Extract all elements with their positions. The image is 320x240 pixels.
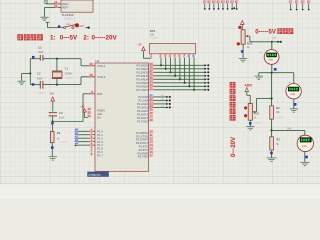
svg-text:P1.5: P1.5 <box>97 147 103 151</box>
svg-text:31: 31 <box>88 114 91 118</box>
wire C1 right to crystal node <box>43 58 81 60</box>
svg-text:RST: RST <box>97 92 103 96</box>
svg-text:ALE: ALE <box>97 112 102 116</box>
svg-text:Volts: Volts <box>302 145 308 148</box>
power +5V arrow RV2 <box>241 21 245 30</box>
svg-text:37: 37 <box>150 69 153 73</box>
svg-text:P2.6/A14: P2.6/A14 <box>137 116 149 120</box>
R1 bottom stub <box>51 143 53 157</box>
svg-text:P2.7/A15: P2.7/A15 <box>137 119 149 123</box>
value RV2 <box>247 46 250 49</box>
crystal Y1 plates <box>52 71 62 79</box>
wire EA <box>85 117 88 119</box>
svg-text:P2.3/A11: P2.3/A11 <box>137 105 148 109</box>
label R2 <box>276 106 280 110</box>
svg-text:36: 36 <box>150 73 153 77</box>
wire C1 left <box>30 58 40 60</box>
value RP1 <box>150 34 155 37</box>
TEXT RV1 <box>254 122 263 125</box>
svg-text:35: 35 <box>150 76 153 80</box>
svg-text:P0.3/AD3: P0.3/AD3 <box>136 74 148 78</box>
resistor R3 body <box>270 137 274 150</box>
wire to ground <box>22 74 31 81</box>
value R2 <box>276 111 281 114</box>
value C3 <box>59 117 65 120</box>
wire R2 to R3 <box>271 120 273 137</box>
wire switch to node <box>86 27 89 29</box>
svg-text:TLC1543: TLC1543 <box>62 13 74 17</box>
svg-text:28: 28 <box>150 118 153 122</box>
svg-text:<TEXT>: <TEXT> <box>65 77 75 80</box>
svg-text:P3.5/T1: P3.5/T1 <box>139 148 149 152</box>
pin number 14 <box>54 0 58 4</box>
svg-text:39: 39 <box>150 62 153 66</box>
ground under RV2 <box>239 59 247 62</box>
svg-text:32: 32 <box>150 87 153 91</box>
wire node to VM3 <box>272 129 305 131</box>
svg-text:REF+: REF+ <box>62 2 69 6</box>
svg-text:16: 16 <box>150 150 153 154</box>
svg-text:29: 29 <box>88 107 91 111</box>
svg-text:0---5V: 0---5V <box>60 34 78 41</box>
ground under R1 <box>49 157 57 160</box>
svg-text:P1.6: P1.6 <box>97 150 103 154</box>
svg-text:PSEN: PSEN <box>97 109 104 113</box>
crystal bottom stub <box>56 79 58 85</box>
pin REF+ stub <box>55 3 61 5</box>
pin name XTAL1 <box>97 64 106 68</box>
marker blue R3 <box>270 152 273 155</box>
wire RV1 wiper up <box>257 98 272 112</box>
pin number 19 <box>89 62 93 66</box>
label RP1 <box>150 29 156 33</box>
power +20V arrow <box>245 88 249 96</box>
svg-text:18: 18 <box>89 73 92 77</box>
svg-text:15: 15 <box>150 147 153 151</box>
svg-text:C3: C3 <box>59 111 63 115</box>
label R1 <box>57 131 61 135</box>
wire stub above switch <box>46 22 50 27</box>
svg-text:30pF: 30pF <box>38 51 44 54</box>
wire arrow to RV1 <box>247 95 250 103</box>
svg-text:REF-: REF- <box>62 6 68 10</box>
value R1 <box>57 137 60 140</box>
TEXT under R1 <box>60 141 70 144</box>
label +5V at switch <box>79 25 84 28</box>
svg-text:P2.2/A10: P2.2/A10 <box>137 102 149 106</box>
P3 pin numbers <box>149 130 153 158</box>
svg-text:0-----20V: 0-----20V <box>92 34 118 41</box>
svg-text:R1: R1 <box>57 131 61 135</box>
label TEXT placeholder <box>62 18 72 21</box>
svg-text:10: 10 <box>150 130 153 134</box>
ground left <box>17 81 25 84</box>
svg-text:1:: 1: <box>50 34 56 41</box>
R1 top stub <box>51 122 53 132</box>
TEXT R2 <box>276 116 285 119</box>
svg-text:P1.7: P1.7 <box>97 154 103 158</box>
power +5V arrow EA <box>83 109 87 118</box>
svg-text:P1.3: P1.3 <box>97 140 103 144</box>
wire meter1 bottom bus <box>259 72 294 74</box>
red marker RV1 bottom <box>244 114 247 117</box>
wire to switch <box>48 27 64 29</box>
wire XTAL1 <box>81 59 88 66</box>
svg-text:P0.2/AD2: P0.2/AD2 <box>136 70 148 74</box>
svg-text:P0.4/AD4: P0.4/AD4 <box>136 77 148 81</box>
switch SW1 contact 1 <box>64 26 66 28</box>
svg-text:P1.1: P1.1 <box>97 133 103 137</box>
P1 net labels blue <box>74 128 78 146</box>
VM1 top stub <box>271 42 273 50</box>
pin name REF+ <box>62 2 69 6</box>
P1 pin numbers <box>90 128 93 156</box>
svg-text:P0.1/AD1: P0.1/AD1 <box>136 67 148 71</box>
label C1 <box>38 45 42 49</box>
svg-text:0---20V: 0---20V <box>231 137 237 157</box>
svg-text:P0.7/AD7: P0.7/AD7 <box>136 88 148 92</box>
wire end dot <box>87 26 89 28</box>
svg-text:+20V: +20V <box>244 84 253 88</box>
P2 wires with arrows <box>149 95 171 109</box>
pin number 13 <box>54 4 58 8</box>
VM2 top stub <box>293 73 295 84</box>
label +5V RP1 <box>137 43 142 47</box>
red marker RV2 bottom <box>237 42 240 45</box>
label R3 <box>276 138 280 142</box>
pin name REF- <box>62 6 68 10</box>
switch SW1 contact 2 <box>72 26 74 28</box>
svg-text:P3.6/WR: P3.6/WR <box>137 151 148 155</box>
svg-text:<TEXT>: <TEXT> <box>65 18 74 21</box>
junction wiper wire <box>271 41 273 43</box>
svg-text:RV1: RV1 <box>254 112 260 116</box>
svg-text:30: 30 <box>88 111 91 115</box>
RP1 pins to P0 bus with junctions <box>160 54 195 91</box>
svg-text:a3: a3 <box>75 138 78 142</box>
svg-text:U1: U1 <box>95 59 99 63</box>
svg-text:<TEXT>: <TEXT> <box>150 37 160 40</box>
value 30pF C2 <box>37 78 43 81</box>
red marker RV1 top <box>244 106 247 109</box>
wire C2 left <box>30 84 40 86</box>
wire XTAL2 <box>81 77 88 85</box>
svg-text:P0.5/AD5: P0.5/AD5 <box>136 81 148 85</box>
switch state red dot <box>75 23 79 27</box>
label C3 <box>59 111 63 115</box>
svg-text:P3.0/RXD: P3.0/RXD <box>136 131 148 135</box>
svg-text:22: 22 <box>150 97 153 101</box>
svg-text:Volts: Volts <box>268 59 274 62</box>
svg-text:<TEXT>: <TEXT> <box>254 122 263 125</box>
P0 pin numbers <box>149 62 153 91</box>
pin number 18 <box>89 73 93 77</box>
svg-text:C2: C2 <box>37 72 41 76</box>
TEXT under Y1 <box>65 77 75 80</box>
net label on wiper wire <box>273 38 277 40</box>
pin number 9 <box>91 90 94 94</box>
junction ground tap <box>29 72 31 74</box>
svg-text:19: 19 <box>89 62 92 66</box>
junction bus <box>270 72 272 74</box>
svg-text:13: 13 <box>150 140 153 144</box>
marker blue R1 <box>51 146 54 149</box>
svg-text:P3.3/INT1: P3.3/INT1 <box>136 141 149 145</box>
capacitor C1 plates <box>40 55 43 61</box>
MCU U1 body <box>95 63 149 171</box>
ground for REF- <box>40 17 48 20</box>
svg-text:P3.2/INT0: P3.2/INT0 <box>136 138 149 142</box>
C3 bottom stub <box>52 116 54 122</box>
power +5V arrow RP1 <box>142 47 146 59</box>
svg-text:26: 26 <box>150 111 153 115</box>
cut-off display pins group B <box>289 0 311 10</box>
svg-text:23: 23 <box>150 101 153 105</box>
svg-text:P2.1/A9: P2.1/A9 <box>138 98 148 102</box>
power +5V arrow reset <box>51 97 55 112</box>
value R3 <box>276 143 279 146</box>
ground VM1 <box>255 76 263 79</box>
label C2 <box>37 72 41 76</box>
svg-text:25: 25 <box>150 108 153 112</box>
label RV1 <box>254 112 260 116</box>
svg-text:17: 17 <box>150 153 153 157</box>
svg-text:P2.0/A8: P2.0/A8 <box>138 95 148 99</box>
svg-text:AT89C51: AT89C51 <box>88 173 101 177</box>
left vertical bus wire <box>29 59 31 85</box>
voltmeter VM3 <box>297 135 313 151</box>
P1 wires with node dots <box>75 130 95 146</box>
net label grey <box>287 128 292 130</box>
svg-text:XTAL2: XTAL2 <box>97 75 106 79</box>
pin numbers 29 30 31 <box>87 107 91 118</box>
label +5V reset <box>50 92 55 96</box>
svg-text:P1.0: P1.0 <box>97 129 103 133</box>
vertical wire to R2 <box>271 73 273 106</box>
svg-text:+5V: +5V <box>137 43 142 47</box>
svg-text:C1: C1 <box>38 45 42 49</box>
marker blue reset <box>51 122 54 125</box>
junction at crystal top <box>56 58 58 60</box>
label SW-SPDT <box>65 18 74 21</box>
marker blue VM3 <box>305 156 308 159</box>
ground stem VM1 <box>258 73 260 76</box>
svg-text:P0.0/AD0: P0.0/AD0 <box>136 63 148 67</box>
stray wire dot <box>233 7 235 9</box>
RP1 pin numbers 2-9 <box>159 54 195 58</box>
MCU left pin stubs <box>88 66 95 94</box>
marker blue VM1 <box>274 68 277 71</box>
resistor R2 body <box>270 106 274 119</box>
VM3 bottom stub <box>304 152 306 163</box>
RV1 bottom stub <box>249 120 251 126</box>
svg-text:Volts: Volts <box>290 93 296 96</box>
VM3 plus <box>299 133 301 137</box>
pin name XTAL2 <box>97 75 106 79</box>
red annotation: 0--5V input <box>255 28 293 35</box>
TEXT under AT89C51 <box>89 178 99 181</box>
svg-text:+5V: +5V <box>80 105 85 108</box>
svg-text:34: 34 <box>150 80 153 84</box>
VM2 plus <box>289 80 291 84</box>
svg-text:P0.6/AD6: P0.6/AD6 <box>136 84 148 88</box>
ground under VM2 <box>290 109 298 112</box>
sheet bottom edge <box>0 184 320 199</box>
svg-text:0-----5V: 0-----5V <box>255 30 276 36</box>
R3 bottom stub <box>271 151 273 158</box>
voltmeter VM1 <box>264 50 279 65</box>
svg-text:11: 11 <box>150 133 153 137</box>
svg-text:a4: a4 <box>75 142 78 146</box>
svg-text:<TEXT>: <TEXT> <box>37 92 47 95</box>
junction RV1 wiper <box>270 97 272 99</box>
svg-text:R3: R3 <box>276 138 280 142</box>
wire REF- to ground <box>45 7 56 17</box>
ground under VM3 <box>300 162 309 165</box>
junction R2-R3 node <box>270 129 272 131</box>
red marker RV2 top <box>238 26 241 29</box>
junction reset node <box>52 120 54 122</box>
svg-text:12MHz: 12MHz <box>65 72 74 75</box>
wire C2 right <box>43 84 81 86</box>
svg-text:P3.7/RD: P3.7/RD <box>138 155 148 159</box>
svg-text:33: 33 <box>150 83 153 87</box>
P2 pin names <box>137 95 149 124</box>
marker blue RV2 <box>241 50 244 53</box>
TEXT RP1 <box>150 37 160 40</box>
svg-text:24: 24 <box>150 104 153 108</box>
P0 bus wires with arrows <box>149 64 210 91</box>
vertical red annotation: 0-20V voltage input <box>230 82 237 157</box>
node marker blue <box>58 25 60 27</box>
crystal Y1 body <box>53 72 62 78</box>
svg-text:P2.4/A12: P2.4/A12 <box>137 109 149 113</box>
P3 pin names <box>136 131 149 159</box>
RP1 pin number 1 <box>150 54 153 58</box>
marker blue bottom <box>32 83 35 86</box>
svg-text:27: 27 <box>150 115 153 119</box>
pot RV2 body <box>241 30 245 44</box>
svg-text:P3.1/TXD: P3.1/TXD <box>136 134 148 138</box>
svg-text:P1.2: P1.2 <box>97 136 103 140</box>
svg-text:<TEXT>: <TEXT> <box>60 141 70 144</box>
label TLC1543 <box>62 13 74 17</box>
VM3 top stub <box>304 130 306 135</box>
switch label grey <box>66 24 72 26</box>
ground under RV1 <box>246 127 254 130</box>
svg-text:R2: R2 <box>276 106 280 110</box>
label U1 <box>95 59 99 63</box>
TEXT under C2 <box>37 92 47 95</box>
ADC chip U2 TLC1543 body <box>61 0 93 12</box>
svg-text:a2: a2 <box>75 135 78 139</box>
label +5V EA <box>80 105 85 108</box>
svg-text:30pF: 30pF <box>37 78 43 81</box>
junction at crystal bottom <box>56 84 58 86</box>
svg-text:<TEXT>: <TEXT> <box>276 116 285 119</box>
wire reset node to RST <box>53 94 88 122</box>
svg-text:P3.4/T0: P3.4/T0 <box>139 144 149 148</box>
svg-text:P2.5/A13: P2.5/A13 <box>137 112 149 116</box>
value 30pF <box>38 51 44 54</box>
svg-text:a1: a1 <box>75 131 78 135</box>
pot RV2 wiper arrow <box>245 35 250 37</box>
voltmeter VM2 <box>286 84 301 99</box>
switch SW1 lever <box>66 24 77 27</box>
label Y1 <box>65 66 69 70</box>
svg-text:38: 38 <box>150 66 153 70</box>
selected part name AT89C51 <box>87 172 109 177</box>
wiper wire arrow end <box>277 41 281 43</box>
svg-text:+5V: +5V <box>79 25 84 28</box>
pin name RST <box>97 92 103 96</box>
pin REF- stub <box>55 6 61 8</box>
label +20V <box>244 84 253 88</box>
svg-text:P1.4: P1.4 <box>97 143 103 147</box>
svg-text:10uF: 10uF <box>59 117 65 120</box>
P0 pin names <box>136 63 148 92</box>
svg-text:Y1: Y1 <box>65 66 69 70</box>
label RV2 <box>247 41 253 45</box>
svg-text:<TEXT>: <TEXT> <box>89 178 99 181</box>
value 12MHz <box>65 72 74 75</box>
marker blue top <box>32 56 35 59</box>
svg-text:14: 14 <box>150 143 153 147</box>
pot RV1 body <box>248 104 252 121</box>
VM2 bottom stub <box>293 99 295 109</box>
value RV1 <box>254 117 257 120</box>
svg-text:RP1: RP1 <box>150 29 156 33</box>
marker blue RV1 <box>249 122 252 125</box>
marker blue VM2 <box>294 103 297 106</box>
P2 pin numbers <box>149 94 153 123</box>
resistor R1 body <box>50 132 54 143</box>
RV2 bottom stub <box>242 44 244 58</box>
svg-text:21: 21 <box>150 94 153 98</box>
pot RV1 wiper arrow <box>252 111 256 113</box>
svg-text:+5V: +5V <box>50 92 55 96</box>
respack RP1 body <box>150 43 196 53</box>
crystal top stub <box>56 59 58 71</box>
svg-text:a0: a0 <box>75 128 78 132</box>
P1 pin names <box>97 129 103 157</box>
wire REF+ to power <box>46 3 55 5</box>
VM1 plus <box>260 50 262 54</box>
svg-text:XTAL1: XTAL1 <box>97 64 106 68</box>
VM1 bottom stub <box>271 64 273 72</box>
svg-text:SW1: SW1 <box>66 24 72 26</box>
svg-text:12: 12 <box>150 136 153 140</box>
svg-text:EA: EA <box>97 116 101 120</box>
capacitor C2 plates <box>40 81 43 89</box>
power terminal (cut off) <box>44 0 47 4</box>
svg-text:+: + <box>260 50 262 54</box>
wire +5V to RP1 pin1 <box>143 54 151 58</box>
pin names PSEN ALE EA <box>97 109 104 120</box>
cut-off display pins group A <box>203 0 239 10</box>
wire RV2 wiper to meter <box>250 36 280 42</box>
ground under R3 <box>266 158 276 161</box>
svg-text:2:: 2: <box>83 34 89 41</box>
svg-text:2M4: 2M4 <box>287 128 292 130</box>
capacitor C3 plates <box>49 113 57 116</box>
